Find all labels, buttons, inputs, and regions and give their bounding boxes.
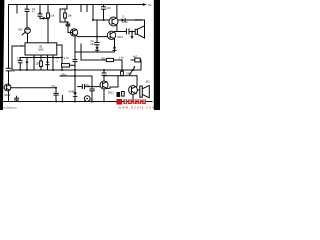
capacitor C13 dark bbox=[117, 92, 121, 97]
wire Q2 base elbow bbox=[60, 21, 68, 23]
svg-text:9013: 9013 bbox=[122, 20, 128, 24]
IC pins bottom row bbox=[20, 57, 62, 59]
capacitor C7 base bbox=[78, 86, 83, 88]
earphone bbox=[135, 29, 137, 34]
wire emitter row bbox=[75, 51, 115, 53]
svg-text:22k: 22k bbox=[35, 62, 40, 66]
diode D5 bbox=[40, 18, 48, 20]
svg-text:9013: 9013 bbox=[4, 93, 10, 97]
ground arrow bbox=[131, 32, 133, 37]
svg-text:MIC: MIC bbox=[18, 28, 23, 32]
svg-text:C6: C6 bbox=[52, 84, 56, 88]
transistor Q6 bbox=[129, 86, 138, 95]
svg-text:K: K bbox=[91, 97, 93, 101]
transistor Q2 bbox=[70, 29, 77, 36]
diode D1 bbox=[118, 19, 122, 21]
resistor R10 bbox=[121, 71, 124, 75]
wire y76 row bbox=[60, 75, 92, 77]
svg-text:4.7: 4.7 bbox=[32, 10, 36, 14]
wire left vertical rail bbox=[8, 5, 10, 69]
wire IC pin left bbox=[12, 45, 25, 47]
transistor Q1 bbox=[4, 84, 11, 91]
capacitor C5 output bbox=[115, 31, 127, 33]
vertical x81 lower bbox=[80, 44, 82, 60]
node +9V arrow bbox=[143, 3, 147, 6]
capacitor C14 bbox=[122, 92, 125, 97]
svg-text:R8: R8 bbox=[102, 56, 106, 60]
svg-text:D: D bbox=[123, 15, 125, 19]
capacitor C6 drop bbox=[55, 88, 57, 93]
svg-text:1800: 1800 bbox=[38, 49, 44, 52]
svg-text:8Ω: 8Ω bbox=[146, 80, 149, 84]
stub x62 bbox=[61, 96, 63, 102]
svg-text:10μ: 10μ bbox=[85, 83, 90, 87]
resistor R3 dark bbox=[66, 23, 71, 26]
wire Q2 emitter to Q4 base bbox=[77, 35, 108, 38]
transistor Q5 bbox=[100, 81, 108, 89]
capacitor on x75 bbox=[73, 59, 77, 61]
potentiometer arrow bbox=[130, 68, 135, 75]
svg-text:10k: 10k bbox=[50, 14, 55, 18]
wire y75.7 row bbox=[104, 75, 137, 77]
resistor R6 bbox=[62, 64, 70, 67]
svg-text:100μ: 100μ bbox=[61, 72, 67, 76]
wire Q1 collector row bbox=[11, 87, 56, 89]
wire verticals from rail bbox=[80, 5, 82, 12]
diode D6 under Q4 bbox=[114, 39, 116, 48]
transistor Q4 bbox=[107, 31, 115, 39]
wire top supply rail bbox=[9, 4, 146, 6]
resistor R1 bbox=[47, 5, 49, 14]
resistor R9 bbox=[131, 59, 135, 61]
svg-text:4.7k: 4.7k bbox=[64, 56, 70, 60]
svg-text:4148: 4148 bbox=[68, 90, 74, 94]
IC U1 bbox=[25, 43, 57, 55]
capacitor C9b plates bbox=[95, 42, 99, 44]
wire Q5 loop bbox=[107, 76, 118, 89]
svg-text:1.2k: 1.2k bbox=[119, 56, 125, 60]
transistor Q3 bbox=[109, 17, 118, 26]
capacitor C3 top branch bbox=[39, 5, 41, 14]
microphone BM bbox=[25, 28, 31, 34]
resistor R8 bbox=[81, 59, 106, 61]
left black bar bbox=[0, 0, 4, 110]
diode D7 bbox=[96, 47, 99, 50]
svg-text:4k7: 4k7 bbox=[133, 55, 138, 59]
diode D2 bbox=[46, 62, 49, 65]
svg-text:104: 104 bbox=[90, 42, 95, 46]
diode D4 on x75 bbox=[73, 92, 76, 96]
right black bar bbox=[154, 0, 160, 110]
svg-text:103: 103 bbox=[106, 6, 111, 10]
wire stub bbox=[16, 5, 18, 14]
svg-text:C3: C3 bbox=[17, 57, 21, 61]
wire bottom ground rail bbox=[3, 101, 152, 103]
svg-text:9V: 9V bbox=[148, 3, 151, 7]
capacitor C9 bbox=[103, 70, 105, 73]
svg-text:9012: 9012 bbox=[117, 35, 123, 39]
svg-text:10k: 10k bbox=[68, 14, 73, 18]
wire mid horizontal rail y70 bbox=[12, 69, 141, 71]
svg-text:SPKR: SPKR bbox=[135, 18, 142, 22]
capacitor C1 bbox=[6, 67, 10, 69]
capacitor C2 bbox=[25, 8, 29, 10]
capacitor C4 bbox=[103, 5, 105, 7]
speaker SP bbox=[137, 89, 139, 91]
wire mic branch bbox=[26, 5, 28, 10]
wire Q2 collector down bbox=[74, 36, 76, 52]
wire x97 link bbox=[96, 20, 98, 42]
capacitor C12 drop bbox=[91, 76, 93, 89]
capacitor C3b bbox=[19, 58, 21, 61]
svg-text:9012: 9012 bbox=[108, 91, 114, 95]
resistor R2 bbox=[64, 13, 67, 18]
resistor R4 bbox=[40, 61, 43, 67]
svg-text:www.dzdiy.com: www.dzdiy.com bbox=[119, 105, 157, 109]
watermark red text bbox=[123, 99, 146, 104]
watermark red logo bbox=[117, 99, 123, 105]
jack J1 bbox=[84, 96, 90, 102]
wire x137 drop bbox=[136, 76, 138, 86]
svg-text:100μ: 100μ bbox=[126, 72, 132, 76]
diode D3 arrow bbox=[26, 58, 28, 62]
wire mid rect bbox=[60, 5, 67, 23]
capacitor C11 bbox=[16, 96, 18, 98]
wire base Q3 bbox=[93, 19, 109, 21]
svg-text:ww.dzdiy.co: ww.dzdiy.co bbox=[1, 105, 17, 109]
